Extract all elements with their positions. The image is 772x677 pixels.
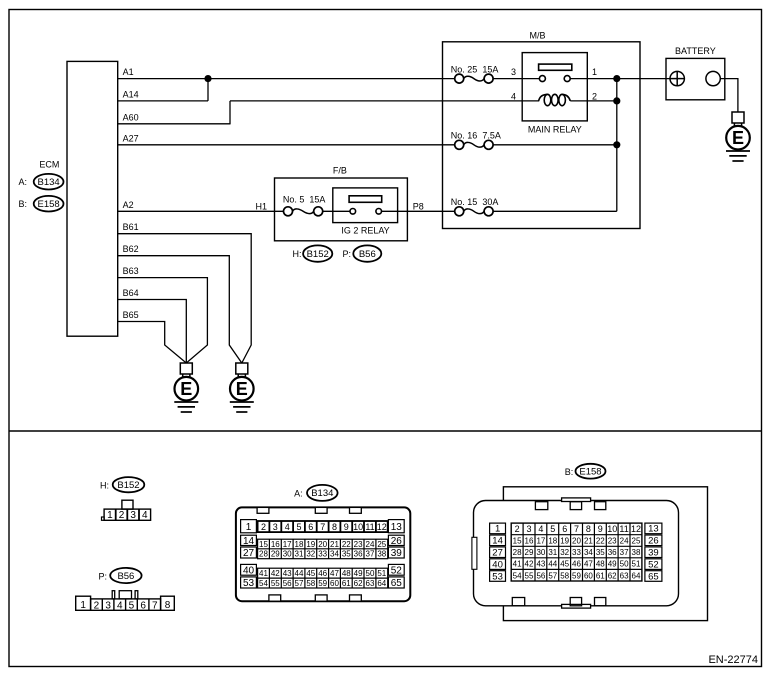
connector B152 top tab [122, 500, 133, 509]
svg-text:62: 62 [354, 579, 363, 588]
svg-text:27: 27 [492, 548, 503, 559]
svg-text:28: 28 [259, 550, 268, 559]
svg-text:22: 22 [596, 537, 605, 546]
svg-text:22: 22 [342, 540, 351, 549]
svg-text:55: 55 [271, 579, 280, 588]
svg-text:3: 3 [273, 522, 278, 532]
svg-text:14: 14 [243, 536, 255, 547]
ground connector square [236, 363, 248, 374]
svg-text:47: 47 [330, 569, 339, 578]
ECM ground symbol right [230, 363, 254, 412]
svg-text:E158: E158 [38, 199, 60, 210]
connector E158 pins 13,26,39,52,65 column [645, 523, 662, 582]
svg-text:35: 35 [596, 548, 605, 557]
svg-text:31: 31 [548, 548, 557, 557]
svg-text:A27: A27 [123, 133, 139, 143]
junction dot bus at pin 2 [613, 97, 620, 104]
svg-text:20: 20 [572, 537, 581, 546]
svg-text:47: 47 [584, 560, 593, 569]
svg-text:65: 65 [648, 571, 659, 582]
svg-text:B61: B61 [123, 222, 139, 232]
connector E158 side notch [472, 537, 477, 569]
svg-text:MAIN RELAY: MAIN RELAY [528, 124, 582, 134]
wire B63 [118, 278, 208, 363]
svg-text:2: 2 [119, 510, 125, 521]
svg-text:No. 16 7.5A: No. 16 7.5A [451, 131, 501, 141]
svg-text:A1: A1 [123, 67, 134, 77]
svg-text:32: 32 [306, 550, 315, 559]
connector ref H: B152 [293, 245, 333, 261]
svg-text:53: 53 [243, 578, 255, 589]
svg-text:18: 18 [548, 537, 557, 546]
svg-text:37: 37 [366, 550, 375, 559]
svg-text:2: 2 [261, 522, 266, 532]
svg-text:38: 38 [632, 548, 641, 557]
svg-text:B56: B56 [359, 249, 376, 260]
bus vertical wire in M/B [616, 79, 618, 212]
svg-text:41: 41 [259, 569, 268, 578]
svg-text:60: 60 [584, 571, 593, 580]
wire fuse No.15 to bus corner [493, 210, 617, 212]
svg-text:16: 16 [271, 540, 280, 549]
svg-text:IG 2 RELAY: IG 2 RELAY [341, 226, 389, 236]
connector B: E158 label [565, 464, 606, 479]
connector B56 body pins 1-8 [76, 596, 175, 611]
svg-text:25: 25 [632, 537, 641, 546]
svg-text:6: 6 [308, 522, 313, 532]
wire fuse No.5 to IG 2 relay contact [323, 210, 351, 212]
svg-text:15: 15 [513, 537, 522, 546]
ground neck [238, 374, 245, 378]
ground connector square [732, 112, 744, 123]
svg-text:48: 48 [596, 560, 605, 569]
svg-text:B152: B152 [307, 249, 329, 260]
connector E158 wide top tab [562, 498, 591, 502]
wire relay pin 1 to battery positive [570, 78, 670, 80]
svg-text:E: E [236, 379, 248, 399]
svg-text:P:: P: [342, 249, 351, 259]
svg-text:7: 7 [574, 524, 579, 534]
svg-text:1: 1 [107, 510, 113, 521]
svg-text:F/B: F/B [333, 165, 347, 175]
wire B65 [118, 322, 187, 364]
svg-text:56: 56 [536, 571, 545, 580]
svg-text:9: 9 [344, 522, 349, 532]
svg-text:52: 52 [391, 565, 403, 576]
svg-text:5: 5 [550, 524, 555, 534]
svg-text:1: 1 [592, 67, 597, 77]
svg-text:5: 5 [296, 522, 301, 532]
svg-text:37: 37 [620, 548, 629, 557]
svg-text:27: 27 [243, 548, 255, 559]
svg-text:58: 58 [560, 571, 569, 580]
svg-text:No. 25 15A: No. 25 15A [451, 64, 499, 74]
connector E158 shell [474, 501, 679, 606]
wire fuse No.25 to relay contact pin 3 [493, 78, 540, 80]
main relay contact left [539, 76, 545, 82]
svg-text:38: 38 [377, 550, 386, 559]
connector B152 corner notch [102, 517, 105, 520]
connector ref B: E158 [18, 196, 63, 212]
svg-text:P8: P8 [413, 201, 424, 211]
connector H: B152 label [100, 477, 144, 492]
svg-text:43: 43 [283, 569, 292, 578]
wire IG 2 relay to fuse No.15 via P8 [382, 210, 455, 212]
svg-text:21: 21 [584, 537, 593, 546]
IG 2 relay box [333, 188, 398, 223]
svg-text:B62: B62 [123, 244, 139, 254]
svg-text:2: 2 [94, 601, 100, 612]
svg-text:49: 49 [608, 560, 617, 569]
svg-text:35: 35 [342, 550, 351, 559]
svg-text:10: 10 [353, 522, 363, 532]
svg-text:36: 36 [354, 550, 363, 559]
svg-text:58: 58 [306, 579, 315, 588]
svg-text:31: 31 [295, 550, 304, 559]
M/B fuse box outline [443, 42, 641, 229]
svg-text:39: 39 [391, 548, 403, 559]
svg-text:BATTERY: BATTERY [675, 46, 716, 56]
svg-text:1: 1 [246, 522, 252, 533]
svg-text:63: 63 [366, 579, 375, 588]
svg-text:44: 44 [295, 569, 304, 578]
svg-text:H:: H: [100, 481, 109, 491]
svg-text:42: 42 [271, 569, 280, 578]
ground neck [183, 374, 190, 378]
svg-text:48: 48 [342, 569, 351, 578]
svg-text:E158: E158 [579, 467, 601, 478]
connector B152 body pins 1-4 [104, 509, 151, 521]
svg-text:34: 34 [330, 550, 339, 559]
ground circle E [230, 377, 254, 401]
wire B64 [118, 300, 187, 364]
svg-text:19: 19 [306, 540, 315, 549]
svg-text:10: 10 [607, 524, 617, 534]
battery ground symbol E [726, 112, 750, 161]
IG 2 relay armature bar [349, 196, 382, 203]
main relay U1 box [522, 53, 587, 121]
connector B134 shell [236, 507, 410, 601]
svg-text:4: 4 [538, 524, 543, 534]
svg-text:36: 36 [608, 548, 617, 557]
svg-text:B63: B63 [123, 266, 139, 276]
svg-text:2: 2 [515, 524, 520, 534]
svg-text:B64: B64 [123, 288, 139, 298]
connector E158 pins 1,14,27,40,53 column [490, 523, 506, 582]
svg-text:40: 40 [492, 559, 503, 570]
svg-text:26: 26 [391, 536, 403, 547]
connector B134 pins 1,14,27,40,53 column [241, 520, 257, 589]
connector B134 pins 41-64 rows [258, 568, 388, 588]
ground hatch lines [230, 402, 254, 412]
svg-text:M/B: M/B [529, 31, 545, 41]
connector B134 top tabs [257, 507, 361, 513]
ECM block [67, 61, 118, 336]
svg-text:No. 5 15A: No. 5 15A [283, 195, 326, 205]
svg-text:41: 41 [513, 560, 522, 569]
svg-text:24: 24 [620, 537, 629, 546]
svg-text:17: 17 [536, 537, 545, 546]
svg-text:7: 7 [320, 522, 325, 532]
battery negative terminal [706, 71, 720, 85]
svg-text:7: 7 [152, 601, 158, 612]
svg-text:21: 21 [330, 540, 339, 549]
svg-text:H1: H1 [255, 201, 267, 211]
IG 2 relay contact right [376, 209, 382, 215]
svg-text:33: 33 [318, 550, 327, 559]
svg-text:50: 50 [366, 569, 375, 578]
svg-text:3: 3 [511, 67, 516, 77]
svg-text:4: 4 [142, 510, 148, 521]
wire A1 to fuse No.25 [118, 78, 455, 80]
svg-text:H:: H: [293, 249, 302, 259]
svg-text:17: 17 [283, 540, 292, 549]
svg-text:B56: B56 [117, 571, 134, 582]
svg-text:24: 24 [366, 540, 375, 549]
svg-text:E: E [180, 379, 192, 399]
svg-text:4: 4 [285, 522, 290, 532]
wire battery negative to ground [720, 79, 738, 112]
wire A14 [118, 100, 208, 102]
ground hatch lines [174, 402, 198, 412]
svg-text:57: 57 [295, 579, 304, 588]
IG 2 relay contact left [350, 209, 356, 215]
connector P: B56 label [98, 568, 141, 583]
svg-text:13: 13 [391, 522, 403, 533]
svg-text:55: 55 [525, 571, 534, 580]
svg-text:57: 57 [548, 571, 557, 580]
F/B fuse box outline [275, 178, 408, 241]
junction node on A1 wire [204, 75, 211, 82]
svg-text:12: 12 [631, 524, 641, 534]
svg-text:34: 34 [584, 548, 593, 557]
connector E158 bottom tabs [512, 598, 606, 606]
svg-text:29: 29 [271, 550, 280, 559]
svg-text:23: 23 [608, 537, 617, 546]
svg-text:19: 19 [560, 537, 569, 546]
svg-text:8: 8 [165, 600, 171, 611]
wire A2 to fuse No.5 [118, 210, 284, 212]
wire A60 to main relay coil pin 4 [230, 100, 539, 102]
svg-text:11: 11 [619, 524, 628, 534]
wire relay coil pin 2 to bus [570, 100, 617, 102]
svg-text:1: 1 [495, 524, 500, 535]
svg-text:59: 59 [318, 579, 327, 588]
svg-text:49: 49 [354, 569, 363, 578]
svg-text:45: 45 [560, 560, 569, 569]
fuse No. 15&#160; 30A symbol [455, 207, 493, 216]
connector E158 housing [503, 487, 707, 621]
connector E158 top tabs [535, 502, 605, 510]
svg-text:B:: B: [18, 199, 27, 209]
svg-text:A14: A14 [123, 89, 139, 99]
svg-text:4: 4 [511, 91, 516, 101]
svg-text:18: 18 [295, 540, 304, 549]
svg-text:EN-22774: EN-22774 [708, 654, 758, 666]
svg-text:52: 52 [648, 559, 659, 570]
section divider line [9, 430, 762, 432]
connector B134 pins 13,26,39,52,65 column [388, 520, 404, 589]
svg-text:54: 54 [259, 579, 268, 588]
svg-text:P:: P: [98, 572, 107, 582]
junction dot bus at battery line [613, 75, 620, 82]
connector B134 pins 2-12 row [258, 521, 388, 532]
svg-text:63: 63 [620, 571, 629, 580]
main relay armature bar [539, 64, 572, 70]
svg-text:32: 32 [560, 548, 569, 557]
wire fuse No.16 to bus [493, 144, 617, 146]
svg-text:B134: B134 [311, 488, 333, 499]
svg-text:B65: B65 [123, 310, 139, 320]
battery box [666, 58, 725, 99]
svg-text:62: 62 [608, 571, 617, 580]
svg-text:A2: A2 [123, 200, 134, 210]
battery positive terminal [670, 71, 684, 85]
svg-text:3: 3 [130, 510, 136, 521]
junction dot bus at fuse No.16 [613, 141, 620, 148]
svg-text:B:: B: [565, 467, 574, 477]
svg-text:25: 25 [377, 540, 386, 549]
fuse No. 5&#160; 15A symbol [284, 207, 323, 216]
svg-text:13: 13 [648, 524, 659, 535]
svg-text:1: 1 [80, 600, 86, 611]
svg-text:51: 51 [377, 569, 386, 578]
svg-text:43: 43 [536, 560, 545, 569]
svg-text:23: 23 [354, 540, 363, 549]
svg-text:29: 29 [525, 548, 534, 557]
svg-text:56: 56 [283, 579, 292, 588]
svg-text:30: 30 [283, 550, 292, 559]
svg-text:50: 50 [620, 560, 629, 569]
svg-text:12: 12 [377, 522, 387, 532]
ground neck [734, 123, 741, 127]
svg-text:8: 8 [332, 522, 337, 532]
ground circle E [175, 377, 199, 401]
connector ref P: B56 [342, 245, 381, 261]
connector E158 pins 2-64 grid [511, 523, 642, 581]
connector ref A: B134 [18, 174, 63, 190]
svg-text:26: 26 [648, 536, 659, 547]
wire A60 horizontal [118, 123, 230, 125]
svg-text:No. 15 30A: No. 15 30A [451, 197, 499, 207]
svg-text:44: 44 [548, 560, 557, 569]
wire B62 [118, 256, 242, 363]
svg-text:30: 30 [536, 548, 545, 557]
svg-text:40: 40 [243, 565, 255, 576]
fuse No. 16&#160; 7.5A symbol [455, 140, 493, 149]
svg-text:A:: A: [294, 488, 303, 498]
svg-text:9: 9 [598, 524, 603, 534]
svg-text:20: 20 [318, 540, 327, 549]
svg-text:B134: B134 [38, 177, 60, 188]
svg-text:46: 46 [318, 569, 327, 578]
connector E158 wide bottom tab [562, 604, 591, 608]
svg-text:60: 60 [330, 579, 339, 588]
ground hatch lines [726, 151, 750, 161]
svg-text:E: E [732, 128, 744, 148]
svg-text:3: 3 [105, 601, 111, 612]
svg-text:65: 65 [391, 578, 403, 589]
wire A60 riser [229, 101, 231, 125]
svg-text:8: 8 [586, 524, 591, 534]
svg-text:6: 6 [562, 524, 567, 534]
svg-text:3: 3 [526, 524, 531, 534]
svg-text:54: 54 [513, 571, 522, 580]
connector A: B134 label [294, 485, 338, 501]
wire B61 [118, 234, 252, 363]
svg-text:A60: A60 [123, 112, 139, 122]
svg-text:B152: B152 [117, 480, 139, 491]
svg-text:64: 64 [377, 579, 386, 588]
svg-text:42: 42 [525, 560, 534, 569]
connector B134 pins 15-38 rows [258, 539, 388, 559]
svg-text:16: 16 [525, 537, 534, 546]
ground connector square [180, 363, 192, 374]
svg-text:33: 33 [572, 548, 581, 557]
svg-text:2: 2 [592, 91, 597, 101]
wire A27 to fuse No.16 [118, 144, 455, 146]
svg-text:64: 64 [632, 571, 641, 580]
svg-text:11: 11 [365, 522, 374, 532]
svg-text:46: 46 [572, 560, 581, 569]
main relay coil [539, 94, 571, 105]
ECM ground symbol left [174, 363, 198, 412]
svg-text:53: 53 [492, 571, 503, 582]
svg-text:51: 51 [632, 560, 641, 569]
svg-text:5: 5 [129, 601, 135, 612]
svg-text:45: 45 [306, 569, 315, 578]
svg-text:28: 28 [513, 548, 522, 557]
connector B134 bottom tabs [269, 595, 361, 601]
svg-text:39: 39 [648, 548, 659, 559]
ground circle E [726, 126, 750, 150]
svg-text:A:: A: [18, 177, 27, 187]
svg-text:61: 61 [342, 579, 351, 588]
svg-text:4: 4 [117, 601, 123, 612]
svg-text:15: 15 [259, 540, 268, 549]
svg-text:59: 59 [572, 571, 581, 580]
connector B56 top tabs [112, 591, 138, 599]
main relay contact right [564, 76, 570, 82]
svg-text:61: 61 [596, 571, 605, 580]
wire junction to A14 [207, 79, 209, 101]
svg-text:6: 6 [140, 601, 146, 612]
fuse No. 25&#160; 15A symbol [455, 74, 493, 83]
svg-text:14: 14 [492, 536, 503, 547]
svg-text:ECM: ECM [39, 159, 59, 169]
